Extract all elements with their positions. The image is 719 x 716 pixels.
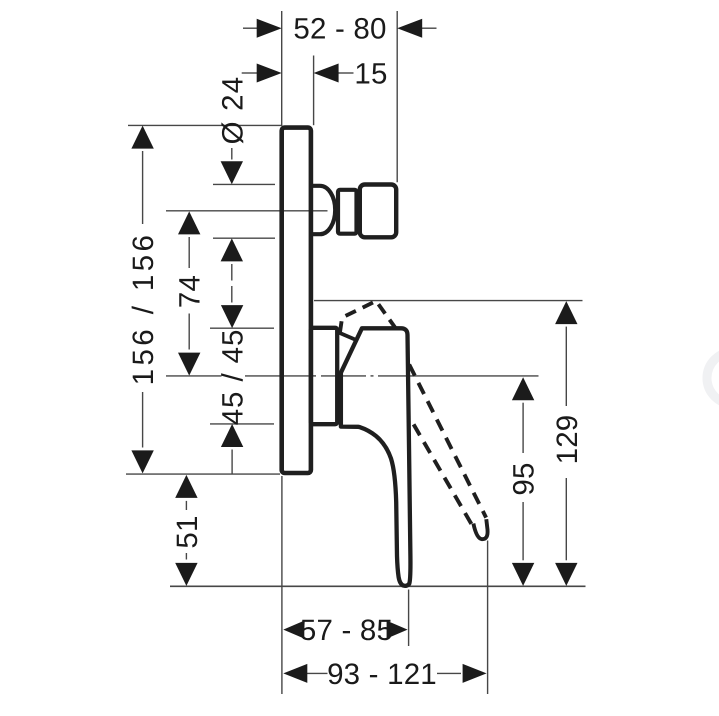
centerline outlet axis (166, 210, 328, 212)
svg-text:57 - 85: 57 - 85 (300, 614, 393, 647)
extension wall face bottom (281, 476, 283, 694)
arrow 156/156 down (131, 450, 153, 473)
dim O24 line segs (231, 148, 233, 160)
arrow 93-121 right (463, 664, 487, 683)
handle lever solid (341, 328, 411, 586)
arrow 95 up (512, 377, 534, 400)
dim 74 line segs (188, 237, 190, 268)
dashed handle head (open position) (340, 301, 395, 333)
arrow 93-121 left (283, 664, 307, 683)
svg-text:95: 95 (508, 462, 541, 495)
arrow 57-85 left (283, 621, 304, 639)
arrow O24 down (221, 161, 243, 184)
svg-text:52 - 80: 52 - 80 (293, 13, 386, 46)
arrow 52-80 left (257, 19, 282, 38)
extension line 15 (plate front) (313, 56, 315, 126)
outlet cap (360, 185, 396, 238)
dim 52-80 tails (243, 27, 258, 29)
extension line plate top (128, 124, 282, 126)
outlet ring (338, 190, 357, 234)
svg-text:129: 129 (551, 415, 584, 465)
tick O24 bottom (213, 237, 275, 239)
dim 45/45 line seg (231, 450, 233, 475)
outlet nose (311, 186, 335, 234)
tick 45/45 bottom (210, 423, 274, 425)
arrow 129 up (555, 301, 577, 324)
arrow 51 up (175, 475, 197, 498)
svg-text:45 / 45: 45 / 45 (217, 329, 250, 426)
arrow 156/156 up (131, 126, 153, 149)
extension 57-85 right (408, 590, 410, 647)
extension line left (wall face) top (281, 11, 283, 126)
arrow 129 down (555, 563, 577, 586)
wall plate (282, 128, 311, 473)
arrow 45/45 up (221, 424, 243, 447)
tick 45/45 top (210, 327, 274, 329)
dashed lever upper edge (409, 365, 486, 518)
arrow 52-80 right (397, 19, 422, 38)
dim 93-121 tails (307, 672, 328, 674)
extension line handle top (129) (314, 300, 583, 302)
dim 95 line segs (522, 403, 524, 453)
rim line (170, 585, 586, 587)
arrow 45/45 down (221, 305, 243, 328)
dim 15 tails (242, 72, 257, 74)
dim 51 line segs (185, 501, 187, 510)
arrow 51 down (175, 563, 197, 586)
svg-text:156 / 156: 156 / 156 (127, 232, 160, 386)
arrow 74 down (178, 353, 200, 376)
arrow 95 down (512, 563, 534, 586)
arrow 15 left (257, 64, 282, 83)
svg-text:Ø 24: Ø 24 (216, 76, 249, 145)
extension line plate bottom (126, 473, 280, 475)
tick O24 top (213, 183, 275, 185)
handle escutcheon (311, 328, 337, 424)
dim 129 line segs (565, 327, 567, 406)
dashed lever tip (473, 519, 487, 539)
svg-text:74: 74 (174, 275, 207, 308)
svg-text:93 - 121: 93 - 121 (327, 658, 437, 691)
svg-text:51: 51 (171, 515, 204, 548)
arrow O24 up (221, 238, 243, 261)
extension 93-121 right (487, 541, 489, 695)
arrow 15 right (314, 64, 339, 83)
dashed lever lower edge (414, 424, 473, 525)
centerline cartridge axis (166, 375, 222, 377)
arrow 74 up (178, 211, 200, 234)
arrow 57-85 right (387, 621, 408, 639)
extension line right of 52-80 (396, 11, 398, 182)
svg-text:15: 15 (354, 57, 387, 90)
dim 156/156 line segs (142, 151, 144, 224)
handle neck top edge (338, 332, 355, 339)
watermark arc (707, 352, 719, 404)
